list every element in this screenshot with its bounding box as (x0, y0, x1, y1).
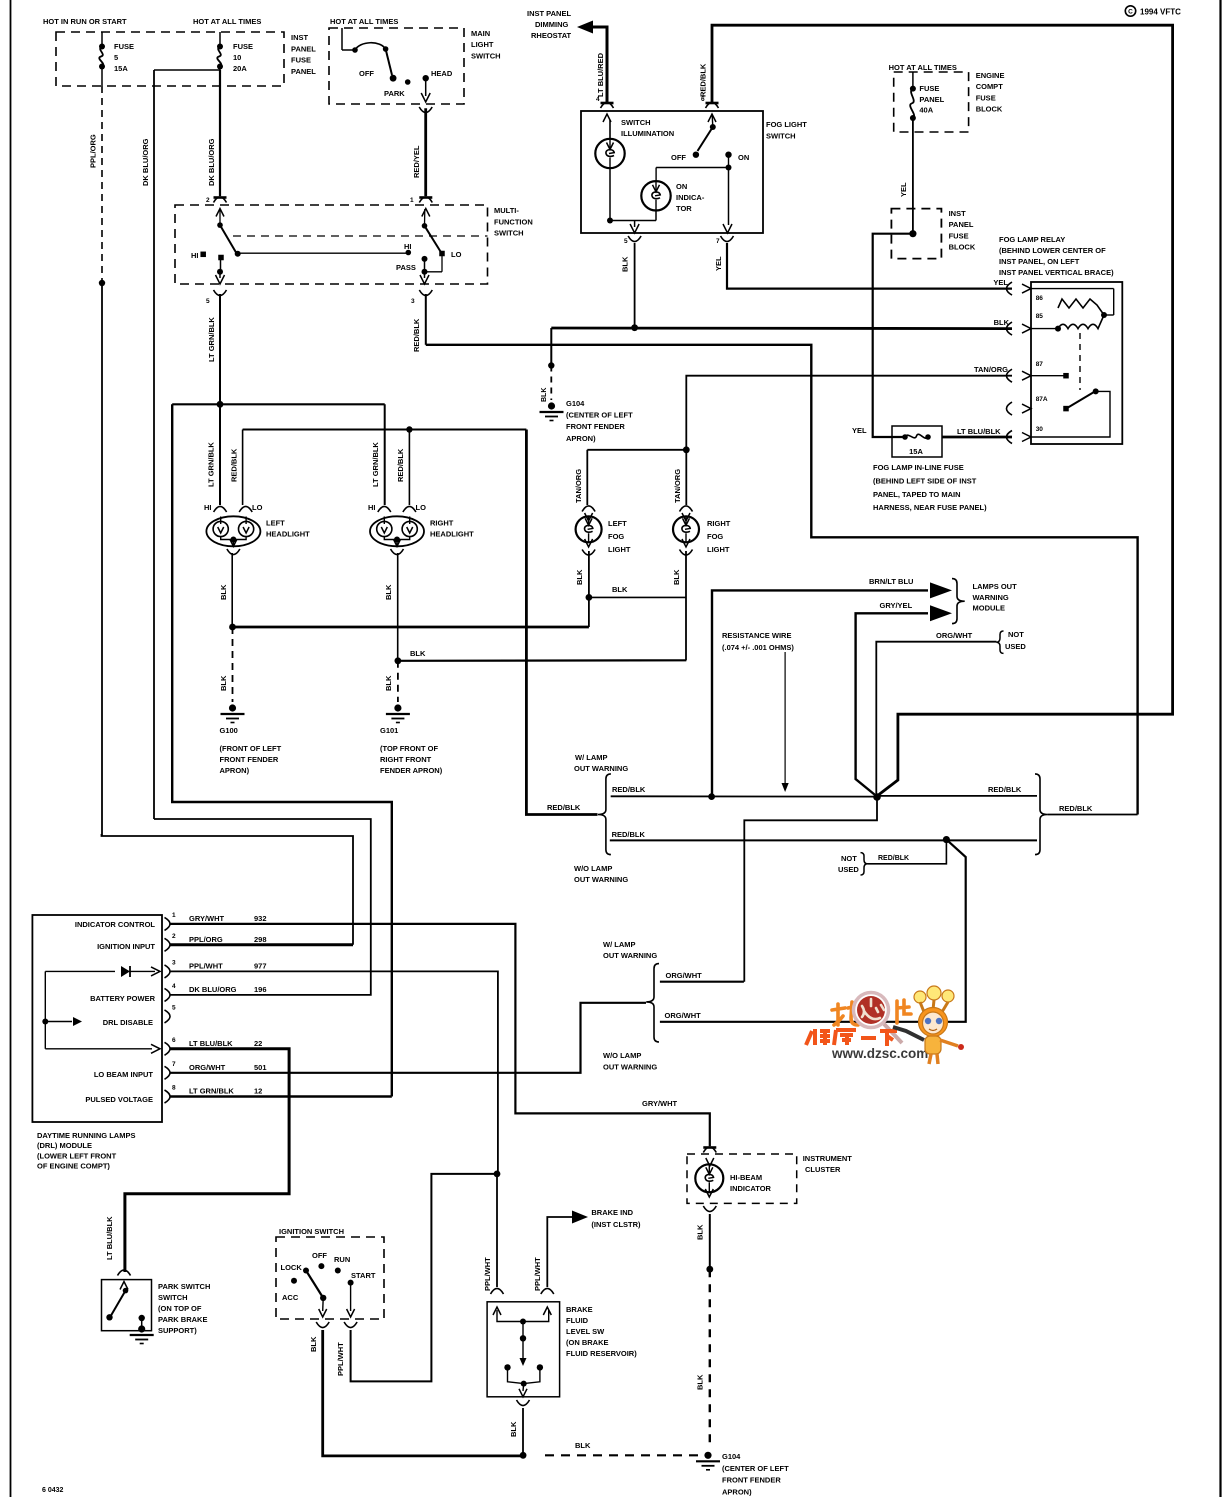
park switch internal ground (138, 1325, 145, 1332)
svg-text:LT BLU/BLK: LT BLU/BLK (105, 1216, 114, 1260)
svg-text:TAN/ORG: TAN/ORG (974, 365, 1008, 374)
svg-text:LIGHT: LIGHT (608, 545, 631, 554)
svg-text:FRONT FENDER: FRONT FENDER (220, 755, 279, 764)
svg-text:C: C (1128, 9, 1133, 16)
svg-text:FRONT FENDER: FRONT FENDER (566, 422, 625, 431)
svg-text:LAMPS OUT: LAMPS OUT (973, 582, 1018, 591)
svg-text:PPL/ORG: PPL/ORG (189, 935, 223, 944)
DRL pin 1 (165, 917, 171, 930)
svg-text:RED/BLK: RED/BLK (699, 63, 708, 97)
svg-text:GRY/YEL: GRY/YEL (880, 601, 913, 610)
svg-text:IGNITION INPUT: IGNITION INPUT (97, 942, 155, 951)
svg-text:START: START (351, 1271, 376, 1280)
svg-text:FUSE: FUSE (949, 231, 969, 240)
svg-text:4: 4 (172, 983, 176, 990)
svg-text:PANEL: PANEL (291, 67, 316, 76)
svg-text:BLK: BLK (621, 256, 630, 272)
svg-text:DIMMING: DIMMING (535, 20, 568, 29)
svg-text:PASS: PASS (396, 263, 416, 272)
svg-text:FUSE: FUSE (919, 84, 939, 93)
node G100 junction (229, 624, 236, 631)
svg-text:RED/BLK: RED/BLK (878, 855, 909, 862)
ignition BLK output (322, 1298, 325, 1311)
org/wht splice brace (646, 964, 659, 1042)
relay pin 87 (1006, 369, 1012, 382)
svg-text:PANEL: PANEL (919, 95, 944, 104)
wire BLK ignition to ground rail (323, 1330, 523, 1456)
svg-text:OF ENGINE COMPT): OF ENGINE COMPT) (37, 1162, 110, 1171)
svg-text:OUT WARNING: OUT WARNING (574, 875, 628, 884)
brake switch internals (497, 1310, 549, 1322)
svg-text:G101: G101 (380, 726, 398, 735)
wire ORG/WHT to NOT USED (upper) (876, 642, 996, 794)
svg-text:HI: HI (368, 503, 376, 512)
instrument cluster box (687, 1154, 797, 1203)
wire GRY/WHT DRL pin1 to hi-beam indicator (171, 924, 710, 1146)
svg-text:LO: LO (252, 503, 263, 512)
svg-text:G104: G104 (722, 1452, 741, 1461)
svg-text:TOR: TOR (676, 204, 692, 213)
svg-text:LEVEL SW: LEVEL SW (566, 1327, 605, 1336)
fog light switch box (581, 111, 763, 233)
svg-text:SUPPORT): SUPPORT) (158, 1326, 197, 1335)
wire RED/YEL (424, 108, 427, 196)
svg-text:ACC: ACC (282, 1293, 299, 1302)
svg-text:85: 85 (1036, 313, 1044, 320)
wire PPL/WHT ignition to brake switch feed (351, 1174, 497, 1382)
svg-text:WARNING: WARNING (973, 593, 1009, 602)
svg-text:977: 977 (254, 961, 267, 970)
svg-text:BLK: BLK (575, 569, 584, 585)
wire YEL to in-line fuse (873, 234, 913, 437)
wire LT BLU/BLK DRL pin6 to park switch (125, 1049, 289, 1272)
svg-text:5: 5 (624, 238, 628, 245)
wire LT BLU/BLK in-line fuse to relay 30 (942, 436, 1012, 439)
svg-text:LT BLU/RED: LT BLU/RED (596, 52, 605, 97)
relay armature dashed link (1079, 333, 1081, 390)
svg-text:(CENTER OF LEFT: (CENTER OF LEFT (722, 1464, 789, 1473)
right fog light BLK wire (685, 551, 687, 660)
svg-text:W/O LAMP: W/O LAMP (603, 1051, 641, 1060)
svg-text:5: 5 (114, 53, 118, 62)
svg-text:LO BEAM INPUT: LO BEAM INPUT (94, 1070, 154, 1079)
svg-text:PPL/WHT: PPL/WHT (336, 1342, 345, 1376)
svg-text:FLUID: FLUID (566, 1316, 589, 1325)
relay pin 87A (1006, 402, 1012, 415)
wire YEL engine fuse to inst panel fuse block (912, 118, 914, 234)
fuse 5 15A (101, 32, 103, 46)
svg-text:2: 2 (172, 933, 176, 940)
svg-text:APRON): APRON) (566, 434, 596, 443)
svg-text:HI: HI (204, 503, 212, 512)
DRL pin 8 (165, 1090, 171, 1103)
svg-text:87A: 87A (1036, 396, 1048, 403)
svg-text:MULTI-: MULTI- (494, 206, 519, 215)
DRL module box (32, 915, 162, 1122)
wire TAN/ORG to right fog light (685, 450, 687, 505)
svg-text:MODULE: MODULE (973, 604, 1006, 613)
copyright 1994 VFTC (1125, 6, 1135, 16)
fog switch pin 6 connector (706, 102, 719, 105)
svg-text:3: 3 (172, 959, 176, 966)
fog switch illumination bulb (609, 120, 611, 139)
ignition START output (350, 1283, 352, 1311)
fog switch pin 5 output (634, 221, 636, 228)
svg-text:OFF: OFF (312, 1251, 327, 1260)
svg-text:OFF: OFF (671, 153, 686, 162)
svg-text:RED/BLK: RED/BLK (412, 318, 421, 352)
fog switch pin 4 connector (601, 102, 614, 105)
engine compt fuse block box (894, 72, 969, 132)
svg-text:OFF: OFF (359, 69, 374, 78)
svg-text:FUSE: FUSE (114, 42, 134, 51)
red/blk splice brace (598, 774, 611, 855)
svg-text:15A: 15A (114, 64, 128, 73)
svg-text:BLOCK: BLOCK (976, 105, 1003, 114)
svg-text:ILLUMINATION: ILLUMINATION (621, 129, 674, 138)
relay pin 86 (1006, 282, 1012, 295)
svg-text:(.074 +/- .001 OHMS): (.074 +/- .001 OHMS) (722, 643, 794, 652)
svg-text:RIGHT: RIGHT (707, 519, 731, 528)
svg-text:RED/YEL: RED/YEL (412, 145, 421, 178)
svg-text:(INST CLSTR): (INST CLSTR) (591, 1220, 641, 1229)
svg-text:W/ LAMP: W/ LAMP (575, 753, 608, 762)
inst panel fuse block box (small) (891, 209, 941, 259)
svg-text:BLK: BLK (612, 585, 628, 594)
wire PPL/ORG from fuse 5 (dashed then solid) (101, 86, 103, 283)
svg-text:GRY/WHT: GRY/WHT (642, 1099, 678, 1108)
in-line fuse 15A box (892, 426, 942, 457)
svg-text:ORG/WHT: ORG/WHT (666, 971, 703, 980)
node inst panel fuse block (909, 230, 916, 237)
svg-text:BLK: BLK (672, 569, 681, 585)
DRL pin 6 (165, 1042, 171, 1055)
svg-text:BLK: BLK (994, 318, 1010, 327)
stub to ORG/WHT branch1 (744, 797, 877, 982)
svg-text:HOT AT ALL TIMES: HOT AT ALL TIMES (889, 63, 957, 72)
svg-text:30: 30 (1036, 426, 1044, 433)
svg-text:FOG: FOG (608, 532, 624, 541)
svg-text:FRONT FENDER: FRONT FENDER (722, 1476, 781, 1485)
svg-text:ORG/WHT: ORG/WHT (665, 1011, 702, 1020)
svg-text:W/O LAMP: W/O LAMP (574, 864, 612, 873)
node LT GRN/BLK junction (217, 401, 224, 408)
left fog light (582, 506, 595, 512)
svg-text:196: 196 (254, 985, 267, 994)
relay pin 30 (1006, 431, 1012, 444)
wire RED/BLK from brace2 up to rail (1047, 814, 1137, 816)
inst panel fuse panel box (56, 32, 284, 86)
relay switch blade (1068, 392, 1094, 408)
ignition switch blade (306, 1271, 322, 1297)
wire RED/BLK to left headlight LO (242, 430, 244, 506)
wire ORG/WHT branch2 riser (660, 840, 966, 1022)
svg-text:NOT: NOT (1008, 630, 1024, 639)
svg-text:HOT IN RUN OR START: HOT IN RUN OR START (43, 17, 127, 26)
svg-text:(FRONT OF LEFT: (FRONT OF LEFT (220, 744, 282, 753)
svg-text:PPL/WHT: PPL/WHT (533, 1257, 542, 1291)
wire RED/BLK to right headlight LO (408, 430, 410, 506)
red/blk recombine brace (right) (1035, 774, 1047, 855)
svg-text:3: 3 (411, 298, 415, 305)
svg-text:RED/BLK: RED/BLK (612, 785, 646, 794)
svg-text:(BEHIND LEFT SIDE OF INST: (BEHIND LEFT SIDE OF INST (873, 476, 977, 485)
svg-text:ON: ON (738, 153, 749, 162)
svg-text:RIGHT FRONT: RIGHT FRONT (380, 755, 432, 764)
svg-text:ORG/WHT: ORG/WHT (189, 1063, 226, 1072)
svg-text:APRON): APRON) (220, 766, 250, 775)
svg-text:HEAD: HEAD (431, 69, 453, 78)
svg-text:LIGHT: LIGHT (707, 545, 730, 554)
svg-text:YEL: YEL (852, 426, 867, 435)
svg-text:40A: 40A (919, 106, 933, 115)
svg-text:RED/BLK: RED/BLK (547, 803, 581, 812)
svg-text:DK BLU/ORG: DK BLU/ORG (189, 985, 237, 994)
svg-text:LT GRN/BLK: LT GRN/BLK (371, 442, 380, 487)
svg-text:LT BLU/BLK: LT BLU/BLK (957, 427, 1001, 436)
ground rail dashed to G104 (545, 1454, 700, 1456)
svg-text:FUSE: FUSE (291, 56, 311, 65)
svg-text:(DRL) MODULE: (DRL) MODULE (37, 1141, 92, 1150)
svg-text:G104: G104 (566, 399, 585, 408)
svg-text:298: 298 (254, 935, 267, 944)
svg-text:BLOCK: BLOCK (949, 243, 976, 252)
svg-text:BLK: BLK (541, 388, 548, 402)
svg-text:BRAKE IND: BRAKE IND (591, 1208, 633, 1217)
svg-text:PPL/WHT: PPL/WHT (189, 961, 223, 970)
svg-text:YEL: YEL (993, 278, 1008, 287)
svg-text:LO: LO (416, 503, 427, 512)
svg-text:PARK SWITCH: PARK SWITCH (158, 1282, 210, 1291)
svg-text:BLK: BLK (509, 1421, 518, 1437)
wire DK BLU/ORG DRL pin4 (154, 819, 371, 995)
wire ORG/WHT DRL pin7 (171, 1003, 647, 1073)
fuse panel 40A fuse (912, 72, 914, 89)
svg-text:LEFT: LEFT (608, 519, 627, 528)
svg-text:FUSE: FUSE (233, 42, 253, 51)
svg-text:LT GRN/BLK: LT GRN/BLK (189, 1087, 234, 1096)
fog lights BLK link (589, 596, 686, 598)
svg-text:PPL/ORG: PPL/ORG (89, 134, 98, 168)
svg-text:1994 VFTC: 1994 VFTC (1140, 8, 1181, 17)
svg-text:CLUSTER: CLUSTER (805, 1165, 841, 1174)
relay coil (1031, 288, 1114, 290)
svg-text:APRON): APRON) (722, 1487, 752, 1496)
multifunction HI rail between poles (238, 252, 408, 254)
svg-text:LT BLU/BLK: LT BLU/BLK (189, 1039, 233, 1048)
svg-text:TAN/ORG: TAN/ORG (673, 469, 682, 503)
svg-text:LO: LO (451, 250, 462, 259)
svg-text:FOG LAMP IN-LINE FUSE: FOG LAMP IN-LINE FUSE (873, 463, 964, 472)
fog switch pin 7 output (728, 168, 730, 226)
wire PPL/WHT DRL pin3 (171, 971, 498, 1174)
svg-text:12: 12 (254, 1087, 262, 1096)
svg-text:USED: USED (1005, 642, 1026, 651)
svg-text:BLK: BLK (575, 1441, 591, 1450)
wire BLK fog switch to relay 85 (551, 327, 1012, 330)
svg-text:(BEHIND LOWER CENTER OF: (BEHIND LOWER CENTER OF (999, 246, 1106, 255)
svg-text:7: 7 (716, 238, 720, 245)
svg-text:RIGHT: RIGHT (430, 519, 454, 528)
svg-text:PANEL, TAPED TO MAIN: PANEL, TAPED TO MAIN (873, 490, 961, 499)
right fog light (680, 506, 693, 512)
svg-text:HEADLIGHT: HEADLIGHT (430, 530, 474, 539)
wire LT BLU/RED to dimming rheostat (577, 21, 593, 34)
svg-text:RED/BLK: RED/BLK (988, 785, 1022, 794)
svg-text:FOG LAMP RELAY: FOG LAMP RELAY (999, 235, 1065, 244)
ground G104 (upper) (548, 402, 555, 409)
fuse 10 20A (219, 32, 221, 46)
wire RED/BLK fog switch pin6 top loop (712, 25, 1173, 794)
wire BLK fog switch pin5 (634, 243, 636, 328)
svg-text:www.dzsc.com: www.dzsc.com (831, 1046, 928, 1061)
svg-text:RHEOSTAT: RHEOSTAT (531, 31, 572, 40)
ground lead G101 (dashed) (397, 661, 399, 702)
fog switch toggle (710, 124, 716, 130)
svg-text:ORG/WHT: ORG/WHT (936, 631, 973, 640)
wire PPL/WHT to brake switch (496, 1174, 498, 1287)
svg-text:INDICATOR: INDICATOR (730, 1184, 772, 1193)
relay pin 85 (1006, 322, 1012, 335)
svg-text:(LOWER LEFT FRONT: (LOWER LEFT FRONT (37, 1151, 117, 1160)
wire PPL/ORG DRL pin2 (171, 943, 354, 946)
svg-text:FOG: FOG (707, 532, 723, 541)
svg-text:86: 86 (1036, 295, 1044, 302)
left fog light BLK wire (588, 551, 590, 627)
main light switch box (329, 28, 464, 104)
svg-text:SWITCH: SWITCH (766, 131, 796, 140)
svg-text:HOT AT ALL TIMES: HOT AT ALL TIMES (330, 17, 398, 26)
ground G101 (394, 704, 401, 711)
svg-text:INST PANEL: INST PANEL (527, 9, 571, 18)
svg-text:YEL: YEL (899, 182, 908, 197)
svg-text:(TOP FRONT OF: (TOP FRONT OF (380, 744, 438, 753)
svg-text:6 0432: 6 0432 (42, 1487, 64, 1494)
wire BLK to ground G104 (upper) (550, 328, 552, 366)
svg-text:G100: G100 (220, 726, 238, 735)
hi-beam indicator bulb (703, 1146, 716, 1149)
wire BRN/LT BLU to lamps out module (712, 590, 928, 796)
fog lamp relay box (1031, 282, 1122, 444)
ground G104 (bottom) (704, 1452, 711, 1459)
wire BLK brake switch to ground rail (522, 1408, 524, 1455)
wire BLK ground rail to left fog (233, 626, 589, 629)
wire LT GRN/BLK to right headlight HI (384, 404, 386, 505)
svg-text:ENGINE: ENGINE (976, 71, 1005, 80)
resistance wire pointer arrow (784, 652, 786, 786)
svg-text:INDICA-: INDICA- (676, 193, 705, 202)
svg-text:(CENTER OF LEFT: (CENTER OF LEFT (566, 411, 633, 420)
svg-text:LOCK: LOCK (281, 1263, 303, 1272)
svg-text:FOG LIGHT: FOG LIGHT (766, 120, 807, 129)
wire RED/BLK multifunction to brace (long route) (426, 345, 1138, 815)
svg-text:BLK: BLK (219, 584, 228, 600)
svg-text:SWITCH: SWITCH (621, 118, 651, 127)
wire ORG/WHT branch1 (w/ lamp out warning) (660, 981, 744, 983)
DRL pin 5 (165, 1010, 171, 1023)
page left border (10, 0, 12, 1497)
svg-text:7: 7 (172, 1061, 176, 1068)
svg-text:INDICATOR CONTROL: INDICATOR CONTROL (75, 920, 156, 929)
DRL pin 7 (165, 1066, 171, 1079)
svg-text:BLK: BLK (696, 1374, 705, 1390)
node G101 junction (395, 657, 402, 664)
left headlight (214, 506, 227, 512)
svg-text:20A: 20A (233, 64, 247, 73)
ground G100 (229, 704, 236, 711)
svg-text:1: 1 (410, 197, 414, 204)
svg-text:SWITCH: SWITCH (471, 51, 501, 60)
wire RED/BLK low-beam rail (243, 429, 527, 431)
svg-text:PULSED VOLTAGE: PULSED VOLTAGE (85, 1095, 153, 1104)
wire RED/BLK east to brace2 (877, 795, 1037, 797)
svg-text:NOT: NOT (841, 854, 857, 863)
svg-text:RUN: RUN (334, 1255, 350, 1264)
svg-text:MAIN: MAIN (471, 29, 490, 38)
brake ind arrow (547, 1217, 572, 1287)
svg-text:BRAKE: BRAKE (566, 1305, 593, 1314)
svg-text:SWITCH: SWITCH (494, 229, 524, 238)
svg-text:YEL: YEL (714, 256, 723, 271)
svg-text:SWITCH: SWITCH (158, 1293, 188, 1302)
svg-text:HARNESS, NEAR FUSE PANEL): HARNESS, NEAR FUSE PANEL) (873, 503, 987, 512)
wire BLK fog lights to G101 (398, 659, 686, 662)
svg-text:2: 2 (206, 197, 210, 204)
svg-text:HI-BEAM: HI-BEAM (730, 1173, 762, 1182)
multi-function switch box (175, 205, 488, 284)
DRL pin 4 (165, 988, 171, 1001)
svg-text:15A: 15A (909, 447, 923, 456)
svg-text:LIGHT: LIGHT (471, 40, 494, 49)
svg-text:BLK: BLK (309, 1336, 318, 1352)
svg-text:1: 1 (172, 912, 176, 919)
DRL pin 2 (165, 938, 171, 951)
svg-text:FUSE: FUSE (976, 93, 996, 102)
svg-text:OUT WARNING: OUT WARNING (603, 1063, 657, 1072)
node RED/BLK multi splice (873, 793, 881, 801)
wire DK BLU/ORG branch from fuse 10 (154, 69, 220, 71)
wire GRY/YEL to lamps out module (856, 613, 928, 794)
brake fluid level switch box (487, 1302, 559, 1397)
svg-text:FLUID RESERVOIR): FLUID RESERVOIR) (566, 1349, 637, 1358)
svg-text:BLK: BLK (410, 649, 426, 658)
svg-text:ON: ON (676, 182, 687, 191)
svg-text:10: 10 (233, 53, 241, 62)
svg-text:932: 932 (254, 914, 267, 923)
svg-text:DK BLU/ORG: DK BLU/ORG (141, 138, 150, 186)
ignition switch box (276, 1237, 384, 1319)
svg-text:RED/BLK: RED/BLK (612, 830, 646, 839)
svg-text:IGNITION SWITCH: IGNITION SWITCH (279, 1227, 344, 1236)
node PPL/WHT junction (494, 1171, 501, 1178)
svg-text:(ON BRAKE: (ON BRAKE (566, 1338, 609, 1347)
svg-text:FENDER APRON): FENDER APRON) (380, 766, 443, 775)
main light switch HEAD output wire (425, 78, 427, 96)
svg-text:DK BLU/ORG: DK BLU/ORG (207, 138, 216, 186)
svg-text:INST PANEL, ON LEFT: INST PANEL, ON LEFT (999, 257, 1080, 266)
left headlight BLK wire (231, 553, 233, 627)
svg-text:PARK BRAKE: PARK BRAKE (158, 1315, 207, 1324)
park switch blade (123, 1288, 129, 1294)
svg-text:BLK: BLK (384, 584, 393, 600)
svg-text:6: 6 (172, 1037, 176, 1044)
svg-text:OUT WARNING: OUT WARNING (574, 764, 628, 773)
svg-text:5: 5 (206, 298, 210, 305)
park switch connector (118, 1270, 131, 1276)
DRL internal circuit (44, 971, 46, 1048)
svg-text:BLK: BLK (696, 1224, 705, 1240)
svg-text:22: 22 (254, 1039, 262, 1048)
